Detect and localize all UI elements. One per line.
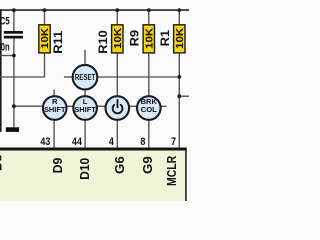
svg-text:4: 4 xyxy=(109,136,115,148)
svg-text:10K: 10K xyxy=(175,27,186,49)
svg-text:R1: R1 xyxy=(158,30,172,47)
svg-text:44: 44 xyxy=(72,136,83,148)
svg-text:RESET: RESET xyxy=(75,73,96,82)
svg-text:10K: 10K xyxy=(113,27,124,49)
svg-text:C5: C5 xyxy=(0,15,10,28)
svg-text:MCLR: MCLR xyxy=(164,155,179,186)
svg-text:G6: G6 xyxy=(112,156,127,174)
svg-text:D9: D9 xyxy=(50,158,65,174)
svg-text:R11: R11 xyxy=(51,30,65,53)
svg-text:7: 7 xyxy=(171,136,176,148)
svg-text:R10: R10 xyxy=(96,30,110,54)
svg-text:43: 43 xyxy=(40,136,50,148)
svg-text:R9: R9 xyxy=(128,30,142,47)
svg-text:D10: D10 xyxy=(77,158,92,180)
svg-text:8: 8 xyxy=(140,136,145,148)
svg-text:100n: 100n xyxy=(0,41,10,54)
svg-text:COL: COL xyxy=(141,105,157,114)
svg-text:10K: 10K xyxy=(40,27,51,49)
svg-text:10K: 10K xyxy=(144,27,155,49)
svg-text:SHIFT: SHIFT xyxy=(74,105,96,114)
svg-text:SHIFT: SHIFT xyxy=(44,105,66,114)
svg-text:D8: D8 xyxy=(0,155,4,172)
svg-text:G9: G9 xyxy=(140,156,155,174)
